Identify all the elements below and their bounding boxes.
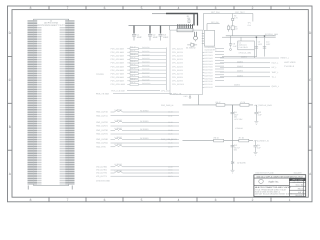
svg-text:LITHIUM: LITHIUM [235, 127, 243, 130]
svg-text:PDS_AD6 66M: PDS_AD6 66M [111, 69, 125, 72]
svg-text:PDS_AD10 66M: PDS_AD10 66M [111, 83, 126, 86]
svg-text:L1 BEAD: L1 BEAD [115, 108, 123, 111]
svg-text:R14 47: R14 47 [130, 60, 136, 63]
svg-text:66MHZ: 66MHZ [237, 74, 244, 77]
svg-text:J2-71: J2-71 [168, 175, 173, 178]
capacitor C14 [254, 141, 262, 156]
resistor R16 row [111, 67, 184, 72]
svg-text:J2-31: J2-31 [168, 133, 173, 136]
RC filter line 2 [161, 138, 253, 141]
svg-text:PDS_AD2 66M: PDS_AD2 66M [111, 55, 125, 58]
svg-text:VID_OUT71: VID_OUT71 [96, 175, 108, 178]
svg-text:R15 47: R15 47 [130, 63, 136, 66]
wire net HALT_L [220, 60, 278, 64]
svg-text:B21 PA01: B21 PA01 [205, 54, 213, 57]
svg-text:B30 PA10: B30 PA10 [205, 80, 213, 83]
svg-text:PDS_TS 33M: PDS_TS 33M [96, 92, 109, 95]
svg-text:J2-61: J2-61 [168, 169, 173, 172]
svg-text:TBST_L: TBST_L [272, 71, 279, 74]
svg-text:L7 BEAD: L7 BEAD [115, 169, 123, 172]
resistor R1 label [187, 15, 191, 23]
wire net below U2 [222, 51, 257, 56]
resistor R12 row [111, 52, 184, 57]
wire U2 outputs [241, 37, 254, 58]
title block right cells text [295, 184, 303, 197]
svg-text:R13 47: R13 47 [130, 56, 136, 59]
wire net INT_L [220, 65, 277, 69]
connector J1 left pin names [37, 27, 41, 185]
resistor R6 [214, 137, 224, 142]
svg-text:VID_OUT61: VID_OUT61 [96, 169, 108, 172]
svg-text:L2 BEAD: L2 BEAD [115, 119, 123, 122]
capacitor C10 branch [263, 35, 271, 56]
IC U1 right pin labels [205, 51, 213, 89]
IC U4 pins [202, 34, 205, 44]
svg-text:SCH 054-22: SCH 054-22 [293, 181, 303, 184]
svg-text:B20 PA00: B20 PA00 [205, 51, 213, 54]
title block dark cell [289, 178, 305, 184]
resistor pack RP1 body [177, 29, 193, 32]
svg-text:GND: GND [184, 95, 189, 98]
svg-text:66MHZ: 66MHZ [234, 84, 241, 87]
svg-text:CPU_AD5 B: CPU_AD5 B [172, 65, 183, 68]
svg-text:3: 3 [215, 198, 217, 202]
connector J1 left pin stubs [28, 20, 34, 184]
svg-text:BGA AD5: BGA AD5 [142, 64, 149, 67]
svg-text:66MHZ: 66MHZ [237, 70, 244, 73]
svg-text:7: 7 [67, 6, 69, 10]
svg-text:R11 47: R11 47 [130, 49, 135, 52]
node line2 end label [254, 140, 270, 143]
svg-text:66MHZ: 66MHZ [237, 65, 244, 68]
svg-text:J2-60: J2-60 [168, 166, 173, 169]
svg-text:FILTERED: FILTERED [140, 137, 149, 140]
node line1 end label [254, 104, 273, 107]
svg-text:C14 R9 L8: C14 R9 L8 [284, 65, 295, 68]
resistor R19 row [111, 78, 184, 83]
svg-text:5: 5 [141, 198, 143, 202]
svg-text:PDS_CLK 66M: PDS_CLK 66M [111, 90, 125, 93]
svg-text:05-17-94: 05-17-94 [296, 184, 303, 187]
svg-text:J2-11: J2-11 [168, 114, 172, 117]
resistor R20 row [111, 81, 185, 86]
connector J1 right pin stubs [69, 20, 75, 184]
svg-text:REV A: REV A [298, 188, 304, 191]
svg-text:R7 2K: R7 2K [239, 137, 245, 140]
svg-text:J2-30: J2-30 [168, 129, 173, 132]
svg-text:FILTERED: FILTERED [140, 110, 149, 113]
svg-text:66MHZ: 66MHZ [237, 60, 244, 63]
resistor R10 pullup [227, 25, 233, 32]
svg-text:BGA AD9: BGA AD9 [142, 78, 149, 81]
diode D1 [240, 101, 249, 106]
svg-text:CLK DRVR: CLK DRVR [239, 46, 249, 49]
svg-text:PDS_AD3 66M: PDS_AD3 66M [111, 58, 125, 61]
last used note [284, 61, 296, 68]
title block title band [255, 186, 292, 196]
svg-text:32.768KHZ: 32.768KHZ [186, 46, 196, 49]
svg-text:10UF: 10UF [153, 36, 159, 39]
svg-text:TO PDS: TO PDS [96, 73, 104, 76]
svg-text:RTC_TEST: RTC_TEST [235, 11, 245, 14]
connector J1 header text [37, 19, 65, 26]
wire U1 right pin stubs [203, 49, 225, 88]
inductor L2 pair [96, 119, 179, 128]
svg-text:R12 47: R12 47 [130, 52, 136, 55]
power rail +5V [129, 25, 194, 27]
svg-text:CPU_AD3 B: CPU_AD3 B [172, 58, 183, 61]
svg-text:4: 4 [178, 198, 180, 202]
crystal Y1 [186, 42, 197, 50]
resistor R10 row [111, 45, 184, 50]
inductor L1 pair [96, 108, 179, 117]
border zone tick marks top [49, 6, 271, 10]
svg-text:VID_OUT60: VID_OUT60 [96, 166, 108, 169]
svg-text:B26 PA06: B26 PA06 [205, 69, 213, 72]
svg-text:R10 47: R10 47 [130, 45, 136, 48]
resistor R14 row [111, 60, 184, 65]
resistor R21 row [111, 90, 170, 93]
svg-text:D2 BAT85: D2 BAT85 [237, 162, 246, 165]
svg-text:BGA AD10: BGA AD10 [142, 82, 150, 85]
inductor L6 pair [96, 163, 179, 172]
svg-text:66MHZ: 66MHZ [241, 56, 248, 59]
svg-text:BGA AD4: BGA AD4 [142, 61, 149, 64]
svg-text:FILTERED: FILTERED [140, 128, 149, 131]
RC filter line 1 [161, 95, 253, 107]
svg-text:VID_OUT70: VID_OUT70 [96, 172, 108, 175]
svg-text:B: B [309, 125, 311, 129]
title block [254, 175, 306, 197]
IC U1 body [170, 30, 203, 94]
svg-text:CHASSIS GND: CHASSIS GND [96, 180, 110, 183]
svg-text:B32 PA12: B32 PA12 [205, 86, 213, 89]
resistor R22 row [96, 92, 182, 95]
border zone tick marks left and right [8, 56, 313, 150]
svg-text:SND_OUT21: SND_OUT21 [96, 125, 109, 128]
capacitor C2 [148, 26, 159, 41]
svg-text:CPU_AD0 B: CPU_AD0 B [172, 47, 183, 50]
wire to resistor pack [169, 26, 171, 31]
wire RTC_CLK net [203, 11, 253, 31]
title block apple logo [259, 179, 263, 183]
bus VCC dark [152, 14, 198, 26]
inductor L4 pair [96, 136, 179, 145]
svg-text:PROCESSOR DIRECT SLOT: PROCESSOR DIRECT SLOT [37, 24, 65, 27]
svg-text:2: 2 [252, 6, 254, 10]
svg-text:CPU_AD2 B: CPU_AD2 B [172, 55, 183, 58]
svg-text:QACK_L: QACK_L [272, 85, 279, 88]
svg-text:PWR_FAIL_WARN: PWR_FAIL_WARN [161, 138, 178, 141]
svg-text:BGA AD3: BGA AD3 [142, 57, 149, 60]
svg-text:PDS_AD1 66M: PDS_AD1 66M [111, 51, 125, 54]
svg-text:RTC_CLK: RTC_CLK [211, 11, 220, 14]
capacitor C13 [231, 105, 241, 170]
svg-text:J2-70: J2-70 [168, 172, 173, 175]
svg-text:054-2237: 054-2237 [295, 194, 303, 197]
svg-text:R6 1K: R6 1K [214, 137, 220, 140]
svg-text:PDS_AD9 66M: PDS_AD9 66M [111, 80, 125, 83]
svg-text:J2-10: J2-10 [168, 111, 173, 114]
svg-text:SND_OUT30: SND_OUT30 [96, 129, 109, 132]
svg-text:SHT 2: SHT 2 [298, 191, 303, 194]
svg-text:/PFW_RESET_IN: /PFW_RESET_IN [254, 140, 270, 143]
svg-text:PDS_PWR_IN: PDS_PWR_IN [161, 104, 174, 107]
svg-text:6: 6 [104, 198, 106, 202]
svg-text:TA_L: TA_L [272, 76, 276, 79]
svg-text:4: 4 [178, 6, 180, 10]
svg-text:7: 7 [67, 198, 69, 202]
sheet outer border frame [8, 6, 313, 202]
title block header text [256, 175, 303, 178]
svg-text:SYSCLK_16M: SYSCLK_16M [265, 33, 278, 36]
resistor R9 [232, 14, 239, 20]
resistor R18 row [111, 74, 184, 79]
svg-text:B22 PA02: B22 PA02 [205, 57, 213, 60]
svg-text:SND_OUT11: SND_OUT11 [96, 114, 109, 117]
svg-text:R20 47: R20 47 [130, 81, 136, 84]
svg-text:PDS_AD5 66M: PDS_AD5 66M [111, 65, 125, 68]
svg-text:L7 FB: L7 FB [240, 101, 246, 104]
svg-text:DO NOT SCALE DRAWING SHEET 2: DO NOT SCALE DRAWING SHEET 2 OF 7 [255, 193, 292, 196]
svg-text:BT1 3.6V: BT1 3.6V [235, 118, 244, 121]
capacitor C12 [254, 105, 262, 124]
svg-text:SEE 05-17 APPLE COMPUTER C: SEE 05-17 APPLE COMPUTER CONFIDENTIAL 05… [256, 175, 303, 178]
svg-text:L6 BEAD: L6 BEAD [115, 163, 123, 166]
capacitor C11 [231, 105, 244, 130]
svg-text:B25 PA05: B25 PA05 [205, 66, 213, 69]
svg-text:R18 47: R18 47 [130, 74, 136, 77]
svg-text:R17 47: R17 47 [130, 70, 136, 73]
svg-text:8: 8 [30, 198, 32, 202]
capacitor C3 [159, 26, 170, 41]
svg-text:INT_L: INT_L [272, 66, 277, 69]
svg-text:B24 PA04: B24 PA04 [205, 63, 213, 66]
border zone tick marks bottom [49, 197, 271, 202]
oscillator Y2 circuit [194, 32, 198, 42]
svg-text:BGA AD2: BGA AD2 [142, 53, 149, 56]
svg-text:FILTERED: FILTERED [140, 120, 149, 123]
svg-text:L3 BEAD: L3 BEAD [115, 127, 123, 130]
resistor pack RP1 pins [178, 24, 193, 28]
node labels above title block [255, 171, 301, 174]
connector J1 left pin numbers [34, 20, 37, 184]
svg-text:L4 BEAD: L4 BEAD [115, 136, 123, 139]
svg-text:10UF: 10UF [137, 36, 143, 39]
inductor L5 row [96, 143, 179, 148]
svg-text:B23 PA03: B23 PA03 [205, 60, 213, 63]
svg-text:SND_OUT20: SND_OUT20 [96, 121, 109, 124]
connector J1 mounting stubs [28, 186, 72, 190]
svg-text:BGA AD8: BGA AD8 [142, 75, 149, 78]
svg-text:SND_OUT31: SND_OUT31 [96, 133, 109, 136]
wire rows termination bus [165, 48, 167, 91]
svg-text:CPU_AD6 B: CPU_AD6 B [172, 69, 183, 72]
svg-text:1: 1 [289, 198, 291, 202]
capacitor C1 [132, 26, 143, 41]
inductor L3 pair [96, 127, 179, 136]
svg-text:B27 PA07: B27 PA07 [205, 72, 213, 75]
wire net TA_L [220, 74, 276, 78]
svg-text:PDS_AD4 66M: PDS_AD4 66M [111, 62, 125, 65]
svg-text:CPU_CLK: CPU_CLK [161, 90, 171, 93]
svg-text:R16 47: R16 47 [130, 67, 136, 70]
svg-text:1: 1 [289, 6, 291, 10]
svg-text:CUSTOM RTC: CUSTOM RTC [205, 48, 218, 51]
resistor R8 [231, 26, 238, 36]
IC U4 RTC [204, 30, 217, 51]
svg-text:6: 6 [104, 6, 106, 10]
resistor R15 row [111, 63, 184, 68]
svg-text:BGA AD0: BGA AD0 [142, 46, 149, 49]
svg-text:5: 5 [141, 6, 143, 10]
wire net TBST_L [220, 70, 278, 74]
wire net QACK_L [215, 84, 279, 88]
svg-text:B31 PA11: B31 PA11 [205, 83, 213, 86]
connector J1 body [34, 19, 69, 185]
svg-text:Y1: Y1 [190, 42, 192, 45]
diode D2 [231, 161, 245, 164]
svg-text:054-2237: 054-2237 [294, 171, 302, 174]
svg-text:RESET_L: RESET_L [281, 57, 289, 60]
svg-text:L5 BEAD: L5 BEAD [115, 143, 123, 146]
svg-text:PDS_AD7 66M: PDS_AD7 66M [111, 72, 125, 75]
ground [231, 170, 235, 173]
svg-text:CPUCLK_33M: CPUCLK_33M [239, 51, 252, 54]
svg-text:10UF: 10UF [163, 36, 169, 39]
border zone number labels [9, 6, 312, 202]
svg-text:J2-41: J2-41 [168, 142, 173, 145]
resistor R11 row [111, 49, 184, 54]
svg-text:CPU_AD10 B: CPU_AD10 B [172, 83, 185, 86]
svg-text:SND_OUT10: SND_OUT10 [96, 111, 109, 114]
svg-text:CPU_AD8 B: CPU_AD8 B [172, 76, 183, 79]
connector J1 right pin names [60, 27, 66, 185]
svg-text:RTC_EN: RTC_EN [211, 21, 219, 24]
svg-text:PDS_AD0 66M: PDS_AD0 66M [111, 47, 125, 50]
wire RTC_EN net [207, 21, 220, 30]
resistor R7 [239, 137, 249, 142]
svg-text:BGA AD6: BGA AD6 [142, 68, 149, 71]
svg-text:CPU_TS: CPU_TS [173, 92, 182, 95]
svg-text:CPU_AD7 B: CPU_AD7 B [172, 72, 183, 75]
svg-text:J2-15: J2-15 [168, 146, 173, 149]
svg-text:B29 PA09: B29 PA09 [205, 77, 213, 80]
svg-text:SND_RTN: SND_RTN [96, 146, 106, 149]
svg-text:B28 PA08: B28 PA08 [205, 74, 213, 77]
inductor L7 pair [96, 169, 179, 178]
svg-text:HALT_L: HALT_L [272, 62, 279, 65]
svg-text:J2-20: J2-20 [168, 121, 173, 124]
node TO PDS label [96, 73, 104, 76]
svg-text:CPU_AD4 B: CPU_AD4 B [172, 62, 183, 65]
wire net RESET_L [220, 56, 289, 60]
svg-text:GND STITCH PLANE: GND STITCH PLANE [255, 171, 274, 174]
IC U1 bottom stub [184, 95, 191, 99]
svg-text:CPU_AD1 B: CPU_AD1 B [172, 51, 183, 54]
svg-text:SND_OUT40: SND_OUT40 [96, 138, 109, 141]
capacitor C8 [229, 36, 238, 51]
svg-text:BGA AD7: BGA AD7 [142, 71, 149, 74]
svg-text:Apple Inc.: Apple Inc. [268, 181, 279, 184]
svg-text:R19 47: R19 47 [130, 78, 136, 81]
svg-text:BGA AD1: BGA AD1 [142, 50, 149, 53]
connector J1 right pin numbers [65, 20, 69, 184]
svg-text:CPU_AD9 B: CPU_AD9 B [172, 80, 183, 83]
resistor R17 row [111, 70, 184, 75]
capacitor C9 branch [255, 37, 263, 57]
svg-text:LAST USED: LAST USED [284, 61, 296, 64]
svg-text:J2-21: J2-21 [168, 125, 173, 128]
svg-text:PDS_AD8 66M: PDS_AD8 66M [111, 76, 125, 79]
IC U2 clock driver [238, 41, 255, 50]
svg-text:8: 8 [30, 6, 32, 10]
svg-text:SND_OUT41: SND_OUT41 [96, 142, 109, 145]
resistor R5 [216, 101, 225, 106]
node shield label [96, 180, 110, 183]
resistor R13 row [111, 56, 184, 61]
svg-text:2: 2 [252, 198, 254, 202]
wire CLK net top [222, 33, 278, 37]
title block company name [268, 181, 279, 184]
svg-text:B: B [9, 125, 11, 129]
svg-text:R5 47: R5 47 [216, 101, 221, 104]
svg-text:3: 3 [215, 6, 217, 10]
